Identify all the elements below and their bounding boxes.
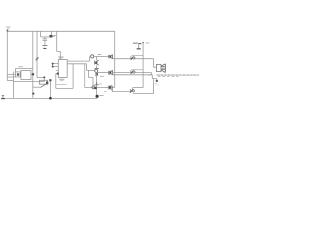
wire left jog [7,80,13,82]
wire faint inner y84.4 [56,83,67,85]
note text line bottom right [157,75,200,77]
ground under C1 [42,45,47,47]
label right of T3R [104,90,107,93]
label battery 1.5V [133,43,138,44]
wire vertical x37 [36,31,38,77]
node bus junction dot [32,93,34,95]
wire emitter tick x51.6 [51,31,53,35]
label mic [18,65,23,68]
label top-left [6,26,10,29]
label near ground node [99,94,103,97]
driver Q-A [131,57,134,60]
wire gate2 input [113,72,131,74]
capacitor C1 [43,37,48,46]
wire loop below IC [56,64,73,89]
transistor T1R [109,55,110,58]
wire gate3 input [112,90,129,92]
wire top rail [7,30,114,32]
left input cluster [7,69,44,82]
transistor T1 [94,60,96,64]
label battery right [146,42,149,45]
wire T2R out long [113,74,153,76]
driver Q-B [131,71,134,74]
IC U1 pins left [52,64,58,74]
wire row3 to rail [85,87,115,89]
wire left drop [12,72,14,99]
box M1 [21,71,31,80]
crystal Y1 [39,80,47,84]
wire top right corner [114,31,116,87]
wire return [153,79,155,94]
battery B1 [142,42,144,88]
transistor T2R [109,71,110,75]
inductor marks on x37 [36,57,39,61]
wire row2 gate input [97,72,109,74]
wire row1 gate [94,57,109,61]
label near T2R [100,75,104,78]
wire base y36.9 [41,36,49,38]
wire vertical x33 [32,31,34,98]
box pin right [31,73,33,75]
transistor Q1 body [49,35,52,38]
wire speaker feed [154,59,157,67]
driver Q-C [130,89,133,92]
wire over box [16,69,33,72]
label IC top [58,56,63,59]
wires from rail [7,75,15,77]
node supply corner junction [6,30,8,32]
label near T3 [99,83,102,86]
specks below speaker [155,82,156,85]
box mic [15,72,20,77]
wire bottom rail [3,97,97,99]
wire bottom of cluster [13,81,44,83]
IC U1 pins right [68,61,90,64]
wire zigzag to rows [89,56,91,61]
label near T1 [98,53,102,56]
wire left rail [6,30,8,80]
transistor T3R [108,86,109,90]
circle C-row1 [91,55,94,58]
wire crystal to left bus [33,86,41,88]
wire vertical x56.7 to IC [57,31,61,59]
wire drop x40.6 [40,31,42,37]
IC U1 box [58,60,67,78]
wire gate1 input [113,58,131,60]
speaker SP1 [156,65,161,72]
tiny text specks [6,27,199,96]
wire lower right [148,75,157,81]
row3 bar and circle [95,82,99,85]
node ground junction [96,95,99,98]
ground left symbol [2,95,4,98]
label IC bottom [59,78,64,81]
chain below T1 [96,65,98,68]
crystal cluster [37,76,52,99]
